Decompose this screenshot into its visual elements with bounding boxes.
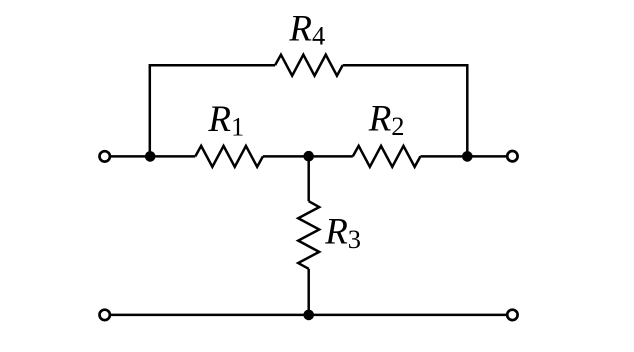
node junction dot center: [303, 151, 314, 162]
wire R2 to right terminal: [420, 155, 507, 158]
terminal open circle bottom-right: [507, 310, 517, 320]
svg-text:R4: R4: [288, 8, 325, 50]
wire middle rail with R1 and R2: [110, 55, 507, 315]
node junction dot right: [462, 151, 473, 162]
wire left terminal to R1: [110, 155, 195, 158]
resistor R4: [275, 55, 343, 76]
node junction dot left: [145, 151, 156, 162]
resistor R1: [195, 146, 263, 167]
wire top loop right side: [343, 65, 468, 156]
wire center node down to R3: [307, 156, 310, 201]
wire top loop left side: [150, 65, 275, 156]
resistor R2: [353, 146, 421, 167]
svg-text:R3: R3: [324, 212, 361, 254]
svg-text:R2: R2: [368, 99, 405, 141]
terminal open circle top-right: [507, 151, 517, 161]
wire bottom rail: [110, 314, 507, 317]
resistor R3: [298, 201, 319, 269]
terminal open circle top-left: [100, 151, 110, 161]
terminal open circle bottom-left: [100, 310, 110, 320]
node junction dot bottom: [303, 310, 314, 321]
svg-text:R1: R1: [207, 99, 244, 141]
wire R3 to bottom rail: [307, 269, 310, 315]
wire R1 to R2: [263, 155, 353, 158]
